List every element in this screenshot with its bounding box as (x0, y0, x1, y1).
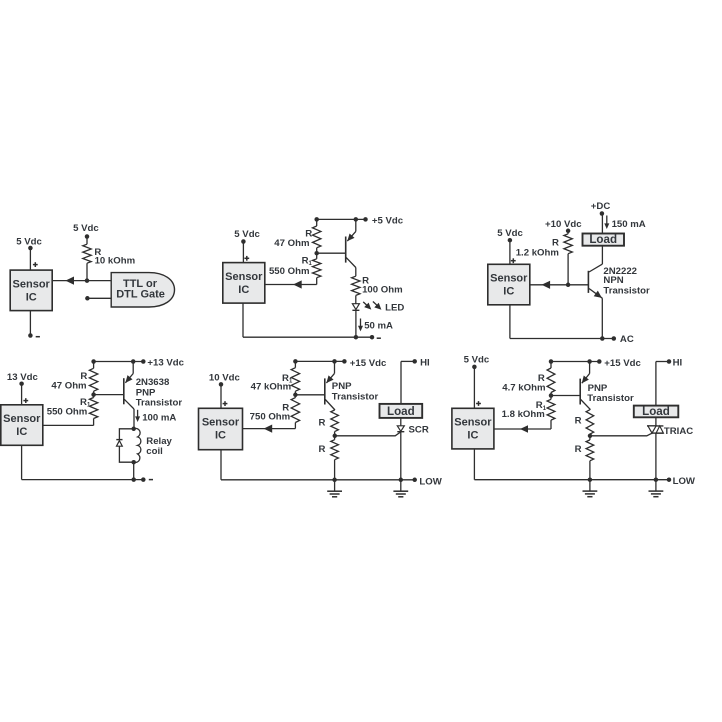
svg-text:IC: IC (26, 292, 37, 304)
svg-text:+10 Vdc: +10 Vdc (545, 219, 582, 230)
svg-text:100 mA: 100 mA (142, 412, 176, 423)
svg-text:4.7 kOhm: 4.7 kOhm (502, 383, 545, 394)
svg-text:coil: coil (146, 446, 163, 457)
svg-text:IC: IC (238, 284, 249, 296)
svg-text:IC: IC (215, 430, 226, 442)
svg-text:50 mA: 50 mA (364, 320, 393, 331)
svg-text:47 Ohm: 47 Ohm (274, 238, 309, 249)
svg-text:1.2 kOhm: 1.2 kOhm (516, 247, 559, 258)
svg-text:47 Ohm: 47 Ohm (51, 381, 86, 392)
svg-text:R: R (575, 416, 582, 427)
svg-text:Load: Load (387, 405, 415, 418)
svg-text:550 Ohm: 550 Ohm (269, 266, 310, 277)
svg-text:550 Ohm: 550 Ohm (47, 406, 88, 417)
svg-text:Relay: Relay (146, 436, 172, 447)
svg-text:LED: LED (385, 303, 404, 314)
svg-text:Transistor: Transistor (587, 393, 634, 404)
svg-text:10 kOhm: 10 kOhm (95, 256, 136, 267)
svg-text:IC: IC (16, 426, 27, 438)
svg-text:AC: AC (620, 334, 634, 345)
svg-text:IC: IC (503, 286, 514, 298)
svg-text:5 Vdc: 5 Vdc (16, 237, 42, 248)
svg-text:R: R (575, 444, 582, 455)
svg-text:10 Vdc: 10 Vdc (209, 373, 241, 384)
svg-text:+13 Vdc: +13 Vdc (147, 358, 184, 369)
svg-text:Sensor: Sensor (454, 417, 492, 429)
svg-text:IC: IC (467, 430, 478, 442)
svg-text:+15 Vdc: +15 Vdc (604, 358, 641, 369)
svg-text:Transistor: Transistor (332, 392, 379, 403)
svg-text:HI: HI (673, 357, 683, 368)
svg-text:Sensor: Sensor (13, 279, 51, 291)
svg-text:750 Ohm: 750 Ohm (250, 412, 291, 423)
svg-text:LOW: LOW (419, 476, 442, 487)
svg-text:Load: Load (589, 233, 617, 246)
svg-text:Load: Load (642, 405, 670, 418)
svg-text:PNP: PNP (332, 381, 352, 392)
svg-text:HI: HI (420, 357, 430, 368)
svg-text:150 mA: 150 mA (612, 219, 646, 230)
svg-text:Sensor: Sensor (202, 417, 240, 429)
svg-text:LOW: LOW (673, 476, 696, 487)
svg-text:DTL Gate: DTL Gate (116, 288, 165, 300)
svg-text:+15 Vdc: +15 Vdc (350, 358, 387, 369)
svg-text:R: R (318, 444, 325, 455)
svg-text:5 Vdc: 5 Vdc (497, 228, 523, 239)
svg-text:Sensor: Sensor (3, 413, 41, 425)
svg-text:Sensor: Sensor (490, 273, 528, 285)
svg-text:1.8 kOhm: 1.8 kOhm (502, 409, 545, 420)
svg-text:TRIAC: TRIAC (664, 426, 693, 437)
svg-text:+5 Vdc: +5 Vdc (372, 215, 404, 226)
svg-text:SCR: SCR (409, 425, 429, 436)
svg-text:Transistor: Transistor (603, 285, 650, 296)
svg-text:13 Vdc: 13 Vdc (7, 372, 39, 383)
svg-text:R: R (318, 418, 325, 429)
svg-text:47 kOhm: 47 kOhm (251, 382, 292, 393)
svg-text:5 Vdc: 5 Vdc (464, 355, 490, 366)
svg-text:Sensor: Sensor (225, 271, 263, 283)
svg-text:Transistor: Transistor (136, 398, 183, 409)
svg-text:5 Vdc: 5 Vdc (73, 223, 99, 234)
svg-text:5 Vdc: 5 Vdc (234, 229, 260, 240)
svg-text:+DC: +DC (591, 201, 611, 212)
svg-text:100 Ohm: 100 Ohm (362, 285, 403, 296)
